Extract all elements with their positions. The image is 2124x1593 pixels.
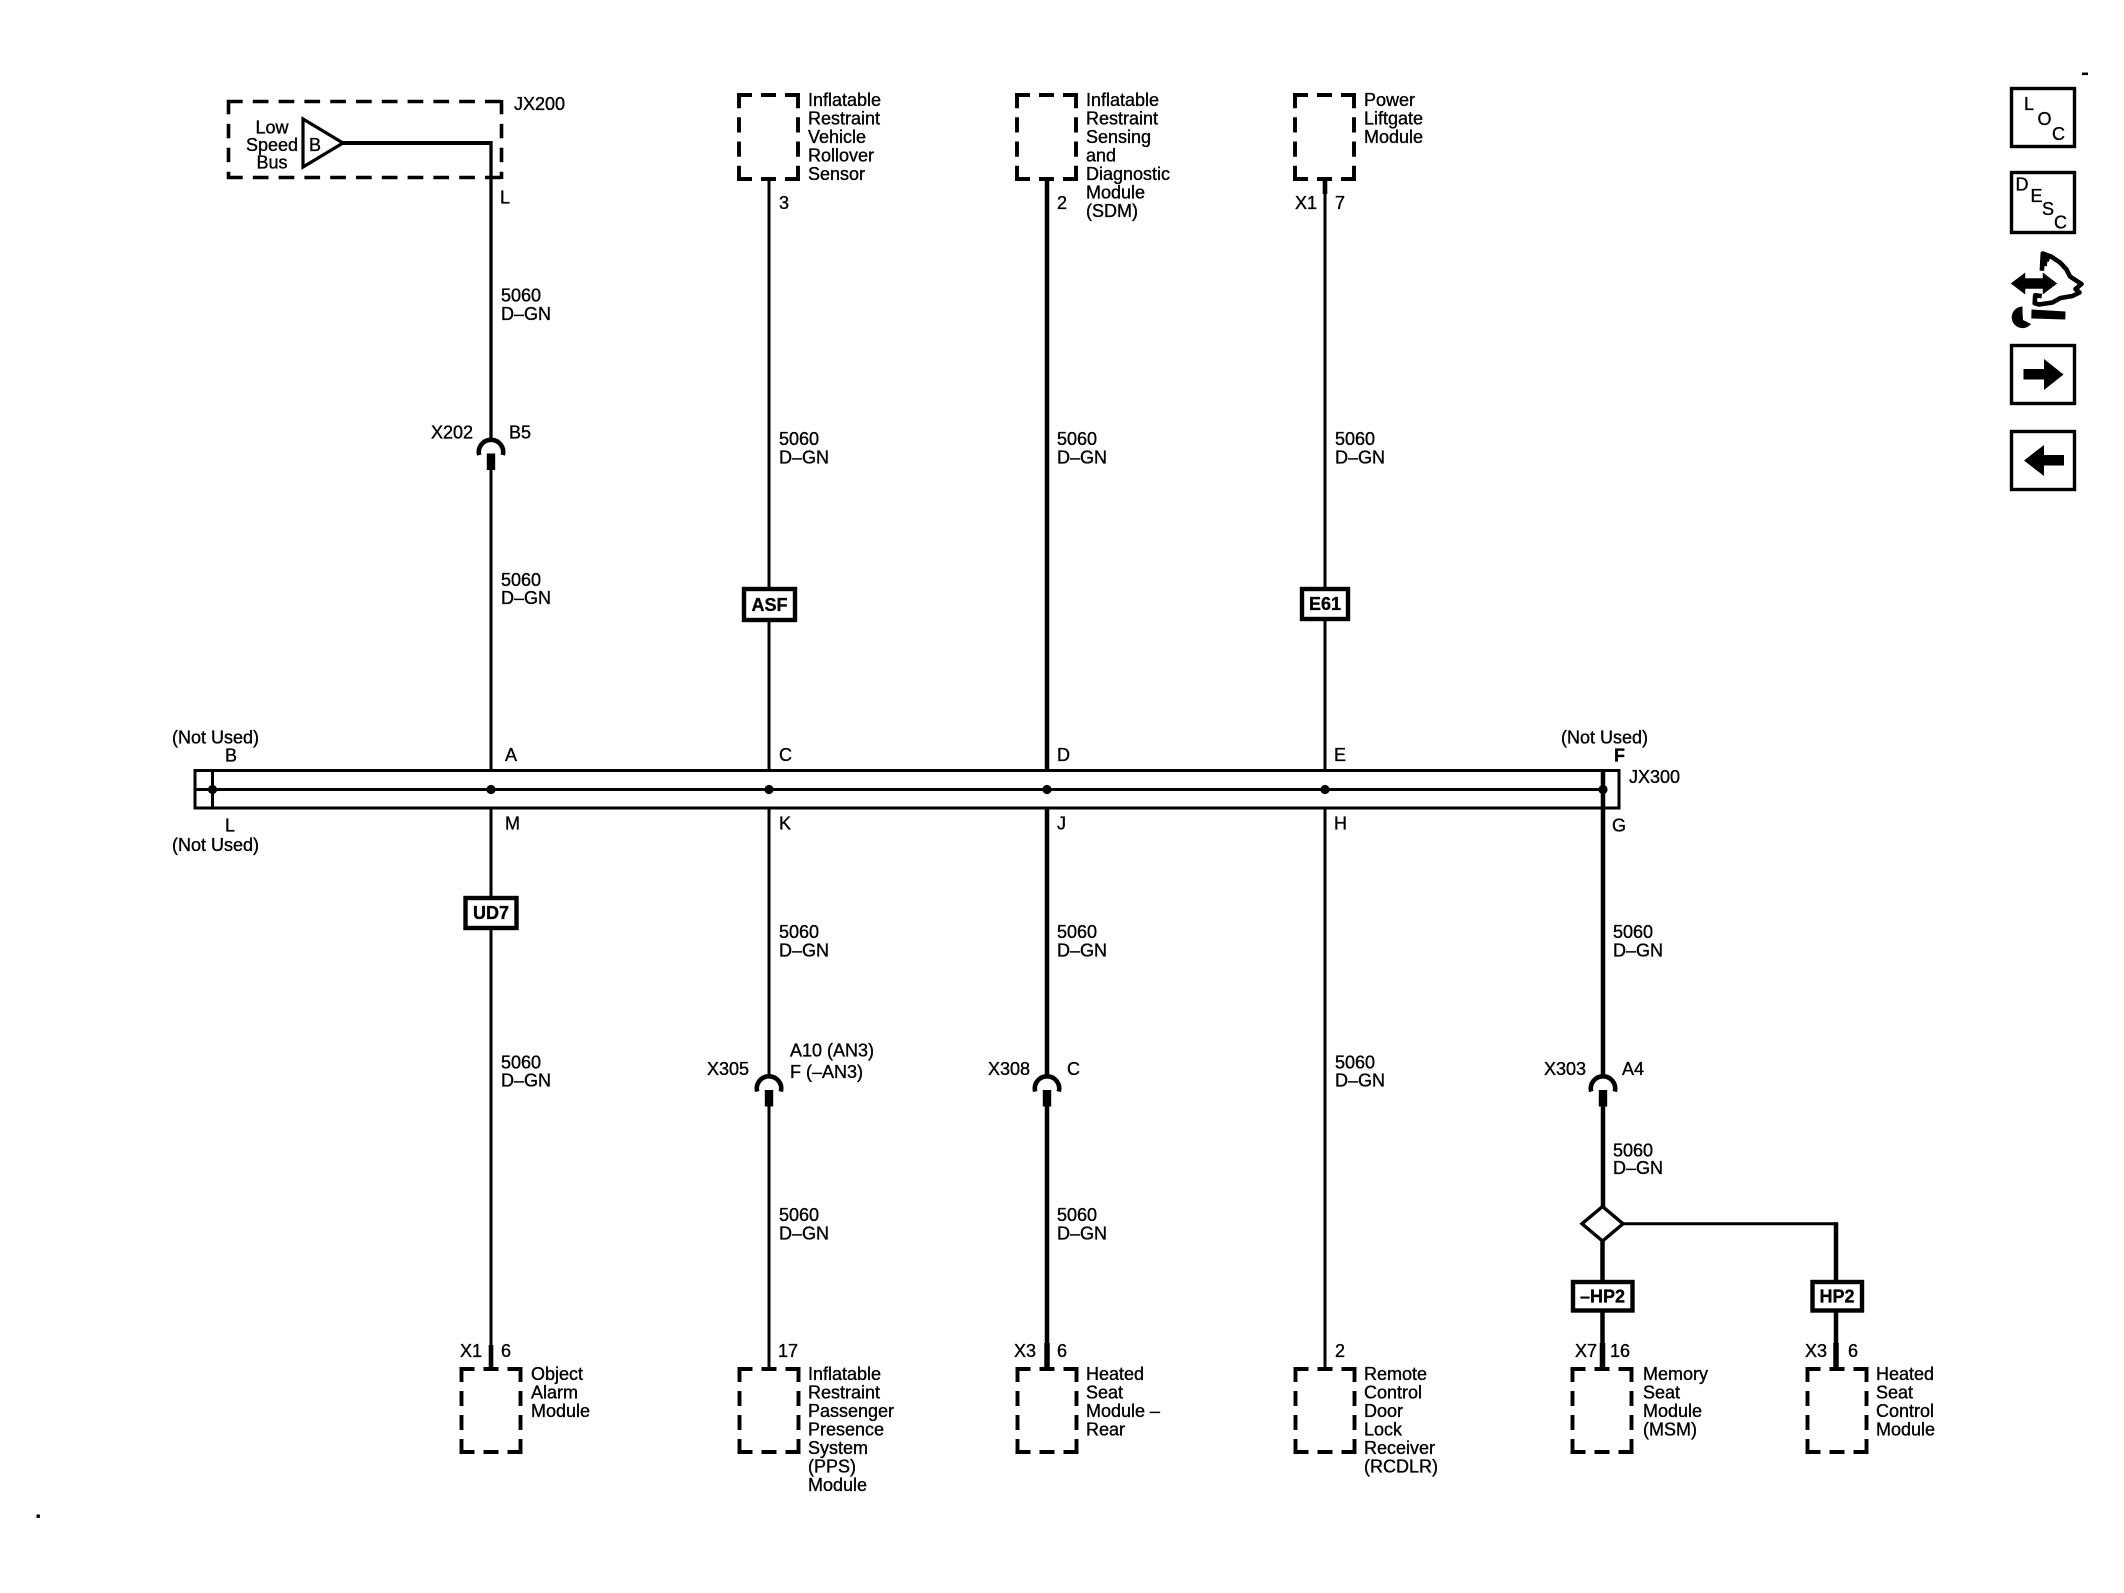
svg-text:(SDM): (SDM)	[1086, 201, 1138, 221]
svg-text:Heated: Heated	[1876, 1364, 1934, 1384]
svg-text:C: C	[1067, 1059, 1080, 1079]
svg-text:Restraint: Restraint	[1086, 109, 1158, 129]
svg-text:D: D	[1057, 745, 1070, 765]
svg-text:Sensing: Sensing	[1086, 127, 1151, 147]
svg-text:5060: 5060	[779, 429, 819, 449]
module: Object Alarm Module dashed box	[460, 1367, 523, 1454]
svg-text:B: B	[225, 746, 237, 766]
wire: bus terminal H to RCDLR pin 2	[1324, 807, 1327, 1367]
svg-text:A: A	[505, 745, 517, 765]
svg-text:Restraint: Restraint	[808, 1383, 880, 1403]
wire (bold): diamond branch to HP2	[1623, 1222, 1838, 1225]
terminal B/L stub (not used)	[211, 772, 214, 808]
pin tick	[1833, 1343, 1839, 1368]
svg-text:Power: Power	[1364, 90, 1415, 110]
wire: rollover sensor pin 3 to ASF	[768, 181, 771, 587]
svg-text:HP2: HP2	[1819, 1287, 1854, 1307]
pin tick	[1044, 1343, 1050, 1368]
svg-text:O: O	[2038, 109, 2052, 129]
svg-text:5060: 5060	[501, 570, 541, 590]
svg-text:A10 (AN3): A10 (AN3)	[790, 1041, 874, 1061]
svg-text:D–GN: D–GN	[779, 448, 829, 468]
svg-text:5060: 5060	[501, 286, 541, 306]
svg-text:Vehicle: Vehicle	[808, 127, 866, 147]
svg-text:Remote: Remote	[1364, 1364, 1427, 1384]
svg-text:5060: 5060	[779, 1205, 819, 1225]
svg-text:17: 17	[778, 1341, 798, 1361]
pin tick	[1600, 1343, 1606, 1368]
splice pack UD7	[466, 898, 517, 928]
svg-text:5060: 5060	[1335, 1053, 1375, 1073]
splice pack JX300 (bus bar)	[195, 771, 1619, 809]
svg-text:X1: X1	[1295, 193, 1317, 213]
module: Memory Seat Module (MSM) dashed box	[1571, 1367, 1634, 1454]
wire (bold): X308 to Heated Seat Module Rear pin 6	[1045, 1107, 1050, 1368]
in-line connector X303 pin A4	[1544, 1059, 1644, 1107]
svg-text:D: D	[2016, 175, 2029, 195]
module: Power Liftgate Module dashed box	[1293, 93, 1356, 181]
svg-text:Seat: Seat	[1876, 1383, 1913, 1403]
module: Heated Seat Module - Rear dashed box	[1016, 1367, 1079, 1454]
module: Remote Control Door Lock Receiver (RCDLR) dashed box	[1294, 1367, 1357, 1454]
splice pack HP2	[1813, 1282, 1863, 1311]
svg-text:X7: X7	[1575, 1341, 1597, 1361]
junction dot E/H	[1320, 785, 1329, 794]
LOC sidebar icon	[2012, 89, 2075, 147]
svg-text:Liftgate: Liftgate	[1364, 109, 1423, 129]
svg-text:K: K	[779, 814, 791, 834]
wire: X305 to PPS module pin 17	[768, 1107, 771, 1368]
svg-text:Seat: Seat	[1643, 1383, 1680, 1403]
svg-text:Inflatable: Inflatable	[808, 90, 881, 110]
svg-text:L: L	[2024, 94, 2034, 114]
wire: UD7 to Object Alarm Module pin 6	[490, 928, 493, 1367]
svg-text:JX200: JX200	[514, 94, 565, 114]
svg-text:D–GN: D–GN	[501, 1071, 551, 1091]
svg-text:X3: X3	[1805, 1341, 1827, 1361]
module: Inflatable Restraint Sensing and Diagnostic Module (SDM) dashed box	[1015, 93, 1078, 181]
svg-text:–HP2: –HP2	[1580, 1287, 1625, 1307]
svg-text:E61: E61	[1309, 594, 1341, 614]
wire: E61 to bus terminal E	[1324, 620, 1327, 770]
svg-text:Sensor: Sensor	[808, 164, 865, 184]
svg-text:Control: Control	[1876, 1401, 1934, 1421]
svg-text:S: S	[2042, 199, 2054, 219]
schematic navigation icon (arrow + wrench sketch)	[2012, 254, 2082, 329]
svg-text:(Not Used): (Not Used)	[1561, 728, 1648, 748]
svg-text:M: M	[505, 814, 520, 834]
svg-text:D–GN: D–GN	[1335, 1071, 1385, 1091]
svg-text:Seat: Seat	[1086, 1383, 1123, 1403]
svg-text:6: 6	[1057, 1341, 1067, 1361]
svg-text:L: L	[500, 188, 510, 208]
svg-text:X305: X305	[707, 1059, 749, 1079]
svg-text:Presence: Presence	[808, 1420, 884, 1440]
svg-text:F: F	[1614, 746, 1625, 766]
svg-text:5060: 5060	[1057, 429, 1097, 449]
svg-text:D–GN: D–GN	[779, 1224, 829, 1244]
svg-text:Object: Object	[531, 1364, 583, 1384]
svg-text:ASF: ASF	[752, 595, 788, 615]
svg-text:E: E	[1334, 745, 1346, 765]
svg-text:6: 6	[1848, 1341, 1858, 1361]
svg-text:7: 7	[1335, 193, 1345, 213]
svg-text:X308: X308	[988, 1059, 1030, 1079]
svg-text:X3: X3	[1014, 1341, 1036, 1361]
module: Inflatable Restraint Vehicle Rollover Sensor (dashed box)	[737, 93, 800, 181]
svg-text:(PPS): (PPS)	[808, 1457, 856, 1477]
svg-text:D–GN: D–GN	[1057, 448, 1107, 468]
wire (bold): bus terminal J to X308	[1045, 807, 1050, 1078]
junction dot D/J	[1042, 785, 1051, 794]
svg-text:Inflatable: Inflatable	[1086, 90, 1159, 110]
svg-text:2: 2	[1057, 193, 1067, 213]
svg-text:Rollover: Rollover	[808, 146, 874, 166]
forward arrow sidebar icon	[2012, 346, 2075, 404]
wire: triangle B to JX200 pin L, to connector X202	[343, 141, 489, 145]
svg-text:A4: A4	[1622, 1059, 1644, 1079]
splice pack -HP2	[1573, 1282, 1633, 1311]
wire (bold): X303 to splice diamond	[1601, 1107, 1606, 1209]
svg-text:Module: Module	[1876, 1420, 1935, 1440]
svg-text:(Not Used): (Not Used)	[172, 835, 259, 855]
splice pack ASF	[744, 589, 795, 620]
svg-text:Module: Module	[531, 1401, 590, 1421]
svg-text:B5: B5	[509, 423, 531, 443]
svg-text:Module: Module	[1086, 183, 1145, 203]
svg-text:Rear: Rear	[1086, 1420, 1125, 1440]
DESC sidebar icon	[2012, 173, 2075, 233]
svg-text:Door: Door	[1364, 1401, 1403, 1421]
svg-text:D–GN: D–GN	[1057, 1224, 1107, 1244]
svg-text:E: E	[2031, 186, 2043, 206]
svg-text:JX300: JX300	[1629, 767, 1680, 787]
svg-text:C: C	[2052, 124, 2065, 144]
wire (bold): HP2 to Heated Seat Control Module pin 6	[1834, 1312, 1839, 1367]
svg-text:6: 6	[501, 1341, 511, 1361]
bus driver triangle B	[303, 119, 343, 167]
junction dot B/L	[208, 785, 217, 794]
svg-text:G: G	[1612, 816, 1626, 836]
svg-text:C: C	[2054, 213, 2067, 233]
junction dot F/G	[1598, 785, 1607, 794]
svg-text:F (–AN3): F (–AN3)	[790, 1062, 863, 1082]
splice pack E61	[1302, 589, 1348, 619]
svg-text:Heated: Heated	[1086, 1364, 1144, 1384]
svg-text:Alarm: Alarm	[531, 1383, 578, 1403]
svg-text:Lock: Lock	[1364, 1420, 1403, 1440]
stray scan mark top right	[2082, 73, 2088, 76]
wire (bold): diamond to -HP2	[1600, 1241, 1605, 1281]
junction dot C/K	[764, 785, 773, 794]
svg-text:X202: X202	[431, 423, 473, 443]
svg-text:5060: 5060	[1057, 1205, 1097, 1225]
wire (bold): -HP2 to MSM pin 16	[1600, 1312, 1605, 1367]
svg-text:(MSM): (MSM)	[1643, 1420, 1697, 1440]
svg-text:Restraint: Restraint	[808, 109, 880, 129]
in-line connector X308 pin C	[988, 1059, 1080, 1107]
in-line connector X202 pin B5	[431, 423, 531, 471]
module: Heated Seat Control Module dashed box	[1806, 1367, 1869, 1454]
pin tick	[1323, 181, 1328, 194]
JX200 harness connector dashed box	[227, 100, 503, 179]
svg-text:Passenger: Passenger	[808, 1401, 894, 1421]
svg-text:3: 3	[779, 193, 789, 213]
svg-text:D–GN: D–GN	[501, 588, 551, 608]
svg-text:Module –: Module –	[1086, 1401, 1160, 1421]
wire: bus terminal K to X305	[768, 807, 771, 1078]
pin tick	[489, 1345, 494, 1368]
back arrow sidebar icon	[2012, 432, 2075, 490]
svg-text:and: and	[1086, 146, 1116, 166]
svg-text:2: 2	[1335, 1341, 1345, 1361]
in-line connector X305 pin A10	[707, 1041, 874, 1107]
svg-text:Diagnostic: Diagnostic	[1086, 164, 1170, 184]
wire (bold): SDM pin 2 to bus terminal D	[1045, 181, 1050, 770]
svg-text:5060: 5060	[501, 1053, 541, 1073]
svg-text:16: 16	[1610, 1341, 1630, 1361]
svg-text:(Not Used): (Not Used)	[172, 728, 259, 748]
svg-text:Control: Control	[1364, 1383, 1422, 1403]
svg-text:X303: X303	[1544, 1059, 1586, 1079]
svg-text:D–GN: D–GN	[1057, 941, 1107, 961]
svg-text:Receiver: Receiver	[1364, 1438, 1435, 1458]
module: Inflatable Restraint Passenger Presence System (PPS) Module dashed box	[738, 1367, 801, 1454]
svg-text:UD7: UD7	[473, 903, 509, 923]
svg-text:System: System	[808, 1438, 868, 1458]
stray scan mark bottom left	[37, 1515, 40, 1518]
svg-text:Inflatable: Inflatable	[808, 1364, 881, 1384]
svg-text:Module: Module	[1364, 127, 1423, 147]
svg-text:J: J	[1057, 814, 1066, 834]
svg-text:C: C	[779, 745, 792, 765]
svg-text:D–GN: D–GN	[501, 304, 551, 324]
svg-text:D–GN: D–GN	[1613, 1158, 1663, 1178]
svg-text:5060: 5060	[1335, 429, 1375, 449]
svg-text:Memory: Memory	[1643, 1364, 1708, 1384]
wire: bus terminal M to UD7	[490, 807, 493, 898]
svg-text:5060: 5060	[779, 922, 819, 942]
wire: X202 to bus JX300 terminal A	[490, 470, 493, 770]
svg-text:B: B	[309, 135, 321, 155]
svg-text:5060: 5060	[1613, 922, 1653, 942]
svg-text:L: L	[225, 816, 235, 836]
svg-text:Module: Module	[808, 1475, 867, 1495]
svg-text:X1: X1	[460, 1341, 482, 1361]
svg-text:Module: Module	[1643, 1401, 1702, 1421]
svg-text:D–GN: D–GN	[1613, 941, 1663, 961]
splice diamond	[1582, 1207, 1623, 1242]
wire: liftgate pin 7 to E61	[1324, 181, 1327, 587]
svg-text:D–GN: D–GN	[779, 941, 829, 961]
svg-text:Bus: Bus	[256, 153, 287, 173]
svg-text:5060: 5060	[1057, 922, 1097, 942]
wire (bold): bus terminal G to X303	[1601, 770, 1606, 1078]
junction dot A/M	[486, 785, 495, 794]
svg-text:D–GN: D–GN	[1335, 448, 1385, 468]
svg-text:(RCDLR): (RCDLR)	[1364, 1457, 1438, 1477]
wire: ASF to bus terminal C	[768, 622, 771, 770]
svg-text:H: H	[1334, 814, 1347, 834]
